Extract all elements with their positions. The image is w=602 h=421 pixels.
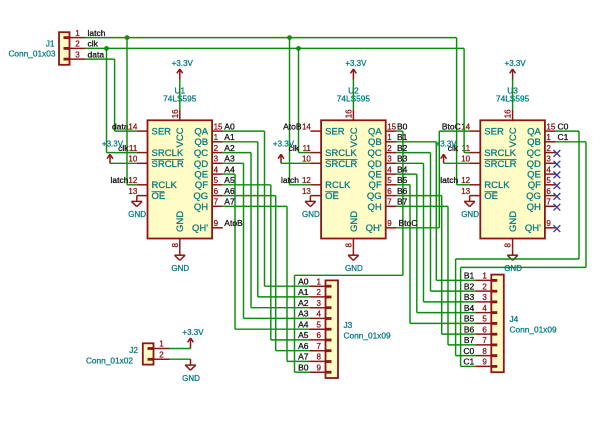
svg-text:A2: A2 bbox=[298, 298, 309, 308]
J3 pin 5 stub bbox=[309, 328, 325, 330]
svg-text:1: 1 bbox=[214, 133, 219, 142]
wire latch bus horizontal bbox=[86, 37, 457, 39]
svg-text:7: 7 bbox=[387, 198, 392, 207]
wire A3 into J3 bbox=[244, 317, 310, 319]
svg-text:14: 14 bbox=[128, 122, 137, 131]
svg-text:QG: QG bbox=[526, 191, 541, 202]
J4 pin 1 stub bbox=[475, 279, 491, 281]
J1 pin 1 stub bbox=[70, 37, 86, 39]
svg-text:B2: B2 bbox=[464, 281, 475, 291]
svg-text:12: 12 bbox=[128, 176, 137, 185]
wire latch into U2 pin 12 bbox=[290, 184, 311, 186]
wire B3 vertical bbox=[423, 163, 425, 302]
power +3.3V at J2 bbox=[182, 328, 204, 349]
svg-text:1: 1 bbox=[387, 133, 392, 142]
wire C0 vertical to J4 bbox=[455, 259, 457, 356]
svg-text:GND: GND bbox=[171, 264, 189, 273]
svg-text:QH': QH' bbox=[525, 223, 541, 234]
svg-text:SRCLK: SRCLK bbox=[484, 148, 516, 159]
svg-text:Conn_01x09: Conn_01x09 bbox=[510, 325, 557, 335]
U1 pin 16 VCC stub bbox=[179, 110, 181, 121]
no-connect flag U3 row 7 bbox=[554, 204, 561, 211]
J1 pin tab 2 bbox=[64, 47, 70, 50]
svg-text:SER: SER bbox=[152, 127, 172, 138]
wire A7 vertical bbox=[286, 206, 288, 361]
wire B1 into J4 bbox=[436, 279, 475, 281]
svg-text:B4: B4 bbox=[397, 164, 408, 174]
svg-text:10: 10 bbox=[302, 155, 311, 164]
J3 pin 6 stub bbox=[309, 339, 325, 341]
power GND at U3 OE pin 13 bbox=[461, 196, 479, 220]
svg-text:2: 2 bbox=[317, 288, 322, 297]
svg-text:10: 10 bbox=[461, 155, 470, 164]
svg-text:B3: B3 bbox=[397, 154, 408, 164]
wire A1 into J3 bbox=[258, 296, 310, 298]
connector J2 body bbox=[143, 343, 154, 364]
power +3.3V at U3 SRCLR bbox=[436, 139, 458, 163]
wire A5 from U1 pin horizontal bbox=[223, 184, 271, 186]
svg-text:A6: A6 bbox=[224, 186, 235, 196]
U1 pin 1 QB stub bbox=[212, 141, 223, 143]
svg-text:13: 13 bbox=[302, 187, 311, 196]
U3 pin 5 QF stub bbox=[545, 184, 556, 186]
wire B6 into J4 bbox=[442, 333, 476, 335]
svg-text:4: 4 bbox=[317, 310, 322, 319]
svg-text:A3: A3 bbox=[298, 309, 309, 319]
wire clk bus horizontal bbox=[86, 47, 465, 49]
wire clk vertical to U2 SRCLK bbox=[298, 48, 300, 152]
wire B7 vertical bbox=[447, 206, 449, 345]
U2 pin 5 QF stub bbox=[386, 184, 397, 186]
J4 pin 8 stub bbox=[475, 355, 491, 357]
svg-text:3: 3 bbox=[317, 299, 322, 308]
svg-text:3: 3 bbox=[387, 155, 392, 164]
svg-text:11: 11 bbox=[303, 144, 312, 153]
svg-text:QG: QG bbox=[193, 191, 208, 202]
svg-text:9: 9 bbox=[387, 219, 392, 228]
wire J2 pin2 to GND bbox=[170, 358, 191, 360]
svg-text:5: 5 bbox=[387, 176, 392, 185]
U2 pin 1 QB stub bbox=[386, 141, 397, 143]
svg-text:13: 13 bbox=[128, 187, 137, 196]
J3 pin tab 3 bbox=[326, 306, 332, 309]
U2 pin 8 GND stub bbox=[352, 239, 354, 250]
U1 pin 3 QD stub bbox=[212, 162, 223, 164]
svg-text:QB: QB bbox=[527, 137, 541, 148]
svg-text:QF: QF bbox=[368, 180, 381, 191]
svg-text:latch: latch bbox=[88, 28, 106, 38]
wire C0 into J4 pin 8 bbox=[456, 355, 476, 357]
svg-text:5: 5 bbox=[317, 320, 322, 329]
svg-text:B0: B0 bbox=[298, 362, 309, 372]
svg-text:QF: QF bbox=[195, 180, 208, 191]
svg-text:OE: OE bbox=[325, 191, 339, 202]
svg-text:+3.3V: +3.3V bbox=[345, 59, 367, 68]
J3 pin tab 2 bbox=[326, 296, 332, 299]
svg-text:15: 15 bbox=[546, 122, 555, 131]
svg-text:+3.3V: +3.3V bbox=[273, 139, 295, 148]
wire B4 from U2 pin horizontal bbox=[396, 173, 416, 175]
J4 pin tab 1 bbox=[491, 279, 497, 282]
svg-text:B7: B7 bbox=[397, 197, 408, 207]
wire B2 vertical bbox=[430, 153, 432, 292]
wire latch vertical to U1 RCLK bbox=[126, 38, 128, 185]
svg-text:2: 2 bbox=[75, 40, 80, 49]
wire C1 vertical to J4 bbox=[460, 267, 462, 366]
U1 pin 15 QA stub bbox=[212, 130, 223, 132]
wire B0 vertical to J3 bbox=[294, 275, 296, 372]
wire B7 into J4 bbox=[448, 344, 475, 346]
svg-text:SER: SER bbox=[484, 127, 504, 138]
svg-text:A0: A0 bbox=[298, 276, 309, 286]
J2 pin 2 stub bbox=[154, 358, 170, 360]
svg-text:11: 11 bbox=[129, 144, 138, 153]
svg-text:A0: A0 bbox=[224, 121, 235, 131]
svg-text:QA: QA bbox=[368, 127, 382, 138]
svg-text:B1: B1 bbox=[464, 271, 475, 281]
svg-text:QC: QC bbox=[367, 148, 381, 159]
J3 pin 8 stub bbox=[309, 360, 325, 362]
svg-text:14: 14 bbox=[461, 122, 470, 131]
J2 pin tab 1 bbox=[148, 347, 154, 350]
svg-text:6: 6 bbox=[214, 187, 219, 196]
U3 pin 13 OE stub bbox=[470, 195, 481, 197]
svg-text:5: 5 bbox=[546, 176, 551, 185]
svg-text:A1: A1 bbox=[224, 132, 235, 142]
U2 pin 7 QH stub bbox=[386, 205, 397, 207]
J3 pin tab 4 bbox=[326, 317, 332, 320]
J4 pin tab 6 bbox=[491, 333, 497, 336]
svg-text:RCLK: RCLK bbox=[484, 180, 510, 191]
J3 pin 4 stub bbox=[309, 317, 325, 319]
wire A7 into J3 bbox=[287, 360, 309, 362]
svg-text:J1: J1 bbox=[46, 39, 55, 49]
power GND at U1 OE pin 13 bbox=[128, 196, 146, 220]
svg-text:9: 9 bbox=[546, 219, 551, 228]
U3 pin 6 QG stub bbox=[545, 195, 556, 197]
svg-text:C0: C0 bbox=[558, 121, 569, 131]
J4 pin tab 7 bbox=[491, 344, 497, 347]
J3 pin 7 stub bbox=[309, 350, 325, 352]
wire B0 vertical down bbox=[402, 131, 404, 275]
svg-text:6: 6 bbox=[546, 187, 551, 196]
svg-text:data: data bbox=[112, 121, 129, 131]
shift register U1 74LS595 body bbox=[148, 120, 213, 238]
svg-text:GND: GND bbox=[508, 211, 519, 232]
svg-text:C1: C1 bbox=[558, 132, 569, 142]
svg-text:QD: QD bbox=[194, 159, 208, 170]
J3 pin tab 8 bbox=[326, 360, 332, 363]
svg-text:8: 8 bbox=[171, 243, 180, 248]
svg-text:2: 2 bbox=[214, 144, 219, 153]
connector J3 body bbox=[326, 280, 339, 378]
svg-text:11: 11 bbox=[462, 144, 471, 153]
svg-text:+3.3V: +3.3V bbox=[182, 328, 204, 337]
svg-text:QA: QA bbox=[194, 127, 208, 138]
svg-text:8: 8 bbox=[344, 243, 353, 248]
svg-text:1: 1 bbox=[159, 340, 164, 349]
svg-text:14: 14 bbox=[302, 122, 311, 131]
wire A6 from U1 pin horizontal bbox=[223, 195, 276, 197]
junction clk at U2 column bbox=[296, 46, 301, 51]
U3 pin 16 VCC stub bbox=[512, 110, 514, 121]
svg-text:16: 16 bbox=[504, 109, 513, 118]
connector J4 body bbox=[491, 275, 504, 373]
wire B5 vertical bbox=[409, 185, 411, 324]
J4 pin 4 stub bbox=[475, 312, 491, 314]
wire B3 into J4 bbox=[424, 301, 476, 303]
wire clk vertical to U1 SRCLK bbox=[106, 48, 108, 152]
J2 pin 1 stub bbox=[154, 348, 170, 350]
J3 pin 1 stub bbox=[309, 285, 325, 287]
svg-text:3: 3 bbox=[75, 50, 80, 59]
shift register U3 74LS595 body bbox=[480, 120, 545, 238]
svg-text:J4: J4 bbox=[510, 314, 519, 324]
svg-text:C1: C1 bbox=[463, 357, 474, 367]
svg-text:+3.3V: +3.3V bbox=[505, 59, 527, 68]
power GND below U2 pin 8 bbox=[345, 249, 363, 273]
svg-text:2: 2 bbox=[387, 144, 392, 153]
svg-text:13: 13 bbox=[461, 187, 470, 196]
svg-text:BtoC: BtoC bbox=[442, 121, 461, 131]
svg-text:B7: B7 bbox=[464, 335, 475, 345]
J3 pin tab 9 bbox=[326, 371, 332, 374]
svg-text:3: 3 bbox=[546, 155, 551, 164]
J4 pin 6 stub bbox=[475, 333, 491, 335]
svg-text:5: 5 bbox=[482, 315, 487, 324]
U1 pin 10 SRCLR stub bbox=[137, 162, 148, 164]
power GND below U3 pin 8 bbox=[504, 249, 522, 273]
wire BtoC vertical up bbox=[438, 131, 440, 228]
U3 pin 3 QD stub bbox=[545, 162, 556, 164]
svg-text:1: 1 bbox=[317, 277, 322, 286]
U3 pin 12 RCLK stub bbox=[470, 184, 481, 186]
U3 pin 11 SRCLK stub bbox=[470, 152, 481, 154]
svg-text:1: 1 bbox=[75, 29, 80, 38]
wire C1 horizontal bbox=[461, 266, 586, 268]
svg-text:GND: GND bbox=[345, 264, 363, 273]
svg-text:SER: SER bbox=[325, 127, 345, 138]
junction latch at U1 column bbox=[125, 35, 130, 40]
J1 pin tab 3 bbox=[64, 58, 70, 61]
svg-text:QH: QH bbox=[527, 202, 541, 213]
svg-text:7: 7 bbox=[317, 342, 322, 351]
svg-text:15: 15 bbox=[387, 122, 396, 131]
svg-text:SRCLR: SRCLR bbox=[325, 159, 357, 170]
wire VCC of U3 to +3.3V bbox=[512, 80, 514, 110]
J4 pin 3 stub bbox=[475, 301, 491, 303]
svg-text:B1: B1 bbox=[397, 132, 408, 142]
wire A4 from U1 pin horizontal bbox=[223, 173, 235, 175]
wire J2 pin1 to +3.3V bbox=[170, 348, 191, 350]
svg-text:J2: J2 bbox=[129, 345, 138, 355]
svg-text:12: 12 bbox=[461, 176, 470, 185]
svg-text:QH: QH bbox=[194, 202, 208, 213]
J3 pin 9 stub bbox=[309, 371, 325, 373]
U2 pin 3 QD stub bbox=[386, 162, 397, 164]
svg-text:QH': QH' bbox=[366, 223, 382, 234]
svg-text:15: 15 bbox=[214, 122, 223, 131]
wire A3 vertical bbox=[243, 163, 245, 318]
svg-text:1: 1 bbox=[482, 272, 487, 281]
U2 pin 6 QG stub bbox=[386, 195, 397, 197]
svg-text:RCLK: RCLK bbox=[325, 180, 351, 191]
svg-text:A4: A4 bbox=[224, 164, 235, 174]
svg-text:AtoB: AtoB bbox=[224, 218, 243, 228]
svg-text:10: 10 bbox=[128, 155, 137, 164]
svg-text:QB: QB bbox=[368, 137, 382, 148]
svg-text:latch: latch bbox=[281, 175, 299, 185]
svg-text:2: 2 bbox=[546, 144, 551, 153]
svg-text:GND: GND bbox=[182, 374, 200, 383]
svg-text:6: 6 bbox=[482, 325, 487, 334]
J3 pin 3 stub bbox=[309, 307, 325, 309]
wire clk into U2 pin 11 bbox=[299, 152, 311, 154]
no-connect flag U3 row 6 bbox=[554, 193, 561, 200]
no-connect flag U3 row 9 bbox=[554, 225, 561, 232]
junction clk at U1 column bbox=[104, 46, 109, 51]
U2 pin 4 QE stub bbox=[386, 173, 397, 175]
svg-text:SRCLR: SRCLR bbox=[484, 159, 516, 170]
svg-text:QB: QB bbox=[194, 137, 208, 148]
wire +3.3V to U3 SRCLR pin 10 bbox=[444, 162, 470, 164]
wire A4 into J3 bbox=[235, 328, 309, 330]
svg-text:GND: GND bbox=[128, 210, 146, 219]
svg-text:QG: QG bbox=[367, 191, 382, 202]
wire A1 vertical bbox=[257, 142, 259, 297]
wire A2 into J3 bbox=[251, 307, 309, 309]
U3 pin 1 QB stub bbox=[545, 141, 556, 143]
U1 pin 12 RCLK stub bbox=[137, 184, 148, 186]
svg-text:OE: OE bbox=[484, 191, 498, 202]
no-connect flag U3 row 2 bbox=[554, 150, 561, 157]
J4 pin tab 2 bbox=[491, 290, 497, 293]
wire B4 vertical bbox=[416, 174, 418, 313]
J3 pin tab 7 bbox=[326, 349, 332, 352]
J4 pin 9 stub bbox=[475, 365, 491, 367]
U3 pin 2 QC stub bbox=[545, 152, 556, 154]
svg-text:QH: QH bbox=[367, 202, 381, 213]
svg-text:A3: A3 bbox=[224, 154, 235, 164]
U3 pin 4 QE stub bbox=[545, 173, 556, 175]
wire +3.3V to U2 SRCLR pin 10 bbox=[281, 162, 310, 164]
wire B1 vertical bbox=[435, 142, 437, 281]
svg-text:3: 3 bbox=[482, 293, 487, 302]
wire B0 horizontal under U2 bbox=[295, 274, 403, 276]
U2 pin 9 QH' stub bbox=[386, 227, 397, 229]
U2 pin 16 VCC stub bbox=[352, 110, 354, 121]
svg-text:Conn_01x03: Conn_01x03 bbox=[8, 49, 55, 59]
svg-text:+3.3V: +3.3V bbox=[102, 139, 124, 148]
wire clk into U1 pin 11 bbox=[107, 152, 137, 154]
power +3.3V at U1 SRCLR bbox=[102, 139, 124, 163]
wire B5 from U2 pin horizontal bbox=[396, 184, 410, 186]
U2 pin 2 QC stub bbox=[386, 152, 397, 154]
U2 pin 13 OE stub bbox=[310, 195, 321, 197]
J3 pin tab 5 bbox=[326, 328, 332, 331]
svg-text:GND: GND bbox=[349, 211, 360, 232]
svg-text:A7: A7 bbox=[298, 352, 309, 362]
wire A0 vertical bbox=[264, 131, 266, 286]
U1 pin 13 OE stub bbox=[137, 195, 148, 197]
wire B7 from U2 pin horizontal bbox=[396, 205, 448, 207]
svg-text:6: 6 bbox=[387, 187, 392, 196]
J4 pin tab 4 bbox=[491, 311, 497, 314]
wire latch vertical to U2 RCLK bbox=[289, 38, 291, 185]
svg-text:SRCLK: SRCLK bbox=[325, 148, 357, 159]
svg-text:7: 7 bbox=[482, 336, 487, 345]
svg-text:J3: J3 bbox=[344, 320, 353, 330]
svg-text:9: 9 bbox=[214, 219, 219, 228]
svg-text:4: 4 bbox=[214, 165, 219, 174]
J4 pin tab 5 bbox=[491, 322, 497, 325]
svg-text:Conn_01x02: Conn_01x02 bbox=[86, 356, 133, 366]
wire data vertical to U1 SER bbox=[114, 59, 116, 131]
svg-text:B5: B5 bbox=[464, 314, 475, 324]
svg-text:4: 4 bbox=[482, 304, 487, 313]
svg-text:data: data bbox=[88, 49, 105, 59]
svg-text:A5: A5 bbox=[224, 175, 235, 185]
svg-text:latch: latch bbox=[440, 175, 458, 185]
svg-text:B3: B3 bbox=[464, 292, 475, 302]
svg-text:B5: B5 bbox=[397, 175, 408, 185]
svg-text:AtoB: AtoB bbox=[283, 121, 302, 131]
J1 pin 3 stub bbox=[70, 58, 86, 60]
svg-text:5: 5 bbox=[214, 176, 219, 185]
wire A1 from U1 pin horizontal bbox=[223, 141, 258, 143]
wire B0 into J3 pin 9 bbox=[295, 371, 310, 373]
wire B0 from U2 QA bbox=[396, 130, 403, 132]
wire A2 vertical bbox=[250, 153, 252, 308]
wire clk vertical to U3 SRCLK bbox=[463, 48, 465, 152]
no-connect flag U3 row 3 bbox=[554, 161, 561, 168]
svg-text:clk: clk bbox=[88, 39, 99, 49]
svg-text:BtoC: BtoC bbox=[399, 218, 418, 228]
wire A2 from U1 pin horizontal bbox=[223, 152, 251, 154]
wire A5 into J3 bbox=[271, 339, 310, 341]
junction latch at U2 column bbox=[287, 35, 292, 40]
wire latch into U1 pin 12 bbox=[127, 184, 137, 186]
svg-text:QE: QE bbox=[194, 170, 208, 181]
wire A5 vertical bbox=[270, 185, 272, 340]
connector J1 body bbox=[59, 32, 70, 65]
svg-text:GND: GND bbox=[302, 210, 320, 219]
J1 pin 2 stub bbox=[70, 47, 86, 49]
svg-text:Conn_01x09: Conn_01x09 bbox=[344, 331, 391, 341]
svg-text:VCC: VCC bbox=[349, 127, 360, 147]
power +3.3V at U2 SRCLR bbox=[273, 139, 295, 163]
wire BtoC into U3 SER bbox=[439, 130, 469, 132]
power GND at U2 OE pin 13 bbox=[302, 196, 320, 220]
svg-text:16: 16 bbox=[171, 109, 180, 118]
J4 pin 2 stub bbox=[475, 290, 491, 292]
svg-text:A2: A2 bbox=[224, 143, 235, 153]
svg-text:QA: QA bbox=[527, 127, 541, 138]
power +3.3V above U1 bbox=[172, 59, 194, 80]
svg-text:3: 3 bbox=[214, 155, 219, 164]
J3 pin 2 stub bbox=[309, 296, 325, 298]
U1 pin 8 GND stub bbox=[179, 239, 181, 250]
J3 pin tab 1 bbox=[326, 285, 332, 288]
wire B6 from U2 pin horizontal bbox=[396, 195, 441, 197]
svg-text:9: 9 bbox=[317, 363, 322, 372]
svg-text:RCLK: RCLK bbox=[152, 180, 178, 191]
svg-text:SRCLK: SRCLK bbox=[152, 148, 184, 159]
wire C1 vertical down bbox=[585, 142, 587, 268]
U2 pin 12 RCLK stub bbox=[310, 184, 321, 186]
U3 pin 15 QA stub bbox=[545, 130, 556, 132]
power GND at J2 bbox=[182, 359, 200, 383]
